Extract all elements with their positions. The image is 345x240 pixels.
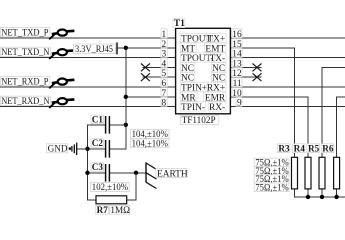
- wire pin7 center-tap MR: [126, 96, 176, 98]
- wire R5 bottom stub: [321, 189, 323, 197]
- wire R7 right vertical: [127, 173, 136, 200]
- junction dot 3.3V_RJ45 tap: [124, 46, 128, 50]
- twisted-pair squiggle TXD_P: [49, 29, 74, 39]
- wire pin10 to R4: [230, 97, 308, 158]
- wire R4 bottom stub: [307, 189, 309, 197]
- svg-text:C2: C2: [92, 138, 104, 148]
- wire pin3 net NET_TXD_N: [0, 57, 176, 59]
- pin name TX+ (pin16): [207, 33, 226, 42]
- twisted-pair squiggle RXD_N: [49, 98, 74, 108]
- pin number 7: [161, 88, 167, 97]
- svg-text:9: 9: [237, 99, 242, 109]
- resistor R4: [305, 157, 311, 189]
- svg-text:NET_TXD_N: NET_TXD_N: [1, 47, 49, 58]
- svg-text:C3: C3: [92, 162, 104, 172]
- value R7 1MΩ: [109, 205, 129, 214]
- svg-text:GND: GND: [48, 144, 68, 154]
- pin name MT (pin2): [180, 43, 196, 52]
- svg-text:75Ω,±1%: 75Ω,±1%: [255, 182, 289, 192]
- pin number 3: [161, 48, 167, 57]
- net label NET_RXD_P: [0, 77, 49, 86]
- no-connect X pin13: [253, 64, 262, 72]
- pin name TPIN- (pin8): [180, 102, 206, 111]
- net label NET_TXD_P: [0, 28, 49, 37]
- svg-text:EARTH: EARTH: [157, 169, 188, 179]
- resistor R6: [334, 157, 340, 189]
- wire R6 bottom stub: [336, 189, 338, 197]
- junction dot C1 right: [124, 123, 128, 127]
- pin name EMT (pin15): [204, 43, 226, 52]
- svg-text:NET_RXD_N: NET_RXD_N: [1, 96, 49, 107]
- pin name EMR (pin10): [203, 92, 226, 101]
- svg-text:RX-: RX-: [209, 103, 225, 113]
- wire C1 right: [110, 124, 126, 126]
- svg-text:NET_RXD_P: NET_RXD_P: [1, 77, 48, 88]
- pin number 9: [236, 97, 242, 106]
- svg-text:102,±10%: 102,±10%: [92, 182, 129, 192]
- svg-text:R4: R4: [294, 143, 306, 153]
- pin name MR (pin7): [180, 92, 197, 101]
- designator C1: [91, 115, 104, 124]
- wire pin4 NC stub: [142, 66, 175, 68]
- junction dot pin7 tap: [124, 95, 128, 99]
- pin number 16: [232, 29, 242, 38]
- pin number 4: [161, 58, 167, 67]
- pin number 1: [161, 29, 167, 38]
- wire pin2 center-tap 3.3V_RJ45: [117, 47, 175, 49]
- capacitor C3: [106, 164, 110, 182]
- resistor R5: [319, 157, 325, 189]
- ground GND: [46, 144, 67, 153]
- svg-text:TF1102P: TF1102P: [182, 116, 216, 126]
- net label NET_RXD_N: [0, 96, 50, 105]
- part value TF1102P: [180, 115, 219, 124]
- svg-text:R7: R7: [97, 205, 109, 215]
- svg-text:104,±10%: 104,±10%: [132, 139, 169, 149]
- wire C2 left: [88, 148, 105, 150]
- pin name NC (pin4): [180, 63, 195, 72]
- svg-text:C1: C1: [92, 115, 104, 125]
- resistor R7: [96, 196, 127, 204]
- value C2 104,±10%: [130, 139, 169, 148]
- value R6 75Ω,±1%: [254, 183, 289, 191]
- pin name NC (pin13): [211, 63, 226, 72]
- port bar 3.3V_RJ45: [116, 42, 118, 54]
- svg-text:R5: R5: [308, 143, 320, 153]
- junction dot GND/C2: [85, 147, 89, 151]
- designator C3: [91, 163, 104, 172]
- ground symbol bars: [69, 143, 77, 155]
- svg-text:R3: R3: [278, 143, 290, 153]
- wire left vertical C1-C2-C3-R7: [88, 125, 105, 200]
- junction dot R4 bottom: [306, 195, 310, 199]
- pin number 14: [232, 48, 242, 57]
- value R5 75Ω,±1%: [254, 175, 289, 183]
- pin name TX- (pin14): [209, 53, 226, 62]
- designator R3: [277, 144, 289, 153]
- designator R6: [321, 144, 333, 153]
- value R3 75Ω,±1%: [254, 158, 289, 166]
- pin number 13: [232, 58, 242, 67]
- pin name TPIN+ (pin6): [180, 82, 208, 91]
- earth symbol: [146, 162, 156, 188]
- value C3 102,±10%: [91, 182, 130, 191]
- net label EARTH: [156, 169, 187, 178]
- wire pin16 to right edge: [230, 37, 345, 39]
- pin number 15: [232, 39, 242, 48]
- junction dot R6 bottom: [334, 195, 338, 199]
- pin name NC (pin5): [180, 73, 195, 82]
- wire pin6 net NET_RXD_P: [0, 86, 176, 88]
- svg-text:R6: R6: [322, 143, 334, 153]
- designator R5: [307, 144, 319, 153]
- wire R6 feed from right edge: [337, 97, 345, 158]
- capacitor C2: [106, 140, 110, 158]
- pin name RX- (pin9): [208, 102, 226, 111]
- pin number 12: [232, 68, 242, 77]
- wire pin5 NC stub: [142, 76, 175, 78]
- value R4 75Ω,±1%: [254, 167, 289, 175]
- designator T1: [173, 19, 185, 28]
- junction dot C3/R7: [134, 171, 138, 175]
- junction dot C3 left: [85, 171, 89, 175]
- wire R5 feed from right edge: [322, 67, 345, 157]
- pin number 2: [161, 39, 167, 48]
- svg-text:8: 8: [162, 99, 167, 109]
- wire pin9 to right edge: [230, 106, 345, 108]
- wire pin1 net NET_TXD_P: [0, 37, 176, 39]
- twisted-pair squiggle RXD_P: [49, 79, 74, 89]
- wire center-tap vertical to capacitors: [110, 48, 126, 149]
- pin name NC (pin12): [211, 73, 226, 82]
- designator R4: [293, 144, 305, 153]
- power port 3.3V_RJ45: [73, 44, 115, 54]
- pin number 8: [161, 97, 167, 106]
- wire C3 right to EARTH: [110, 172, 146, 174]
- capacitor C1: [106, 116, 110, 134]
- designator R7: [96, 205, 109, 214]
- value C1 104,±10%: [130, 130, 169, 139]
- svg-text:3.3V_RJ45: 3.3V_RJ45: [75, 44, 113, 54]
- pin name RX+ (pin11): [206, 82, 226, 91]
- svg-text:TPIN-: TPIN-: [181, 103, 205, 113]
- svg-text:1MΩ: 1MΩ: [110, 205, 130, 215]
- wire resistor bottom bus: [295, 189, 345, 197]
- resistor R3: [292, 157, 298, 189]
- wire pin14 to right edge: [230, 57, 345, 59]
- no-connect X pin4: [141, 64, 150, 72]
- no-connect X pin12: [253, 73, 262, 81]
- wire pin13 NC stub: [230, 66, 261, 68]
- wire C3 left: [88, 172, 105, 174]
- wire pin15 to R3: [230, 48, 294, 158]
- svg-text:NET_TXD_P: NET_TXD_P: [1, 28, 48, 39]
- twisted-pair squiggle TXD_N: [49, 49, 74, 59]
- designator C2: [91, 139, 104, 148]
- junction dot R5 bottom: [320, 195, 324, 199]
- pin number 10: [232, 88, 242, 97]
- pin number 6: [161, 78, 167, 87]
- wire GND to vertical: [77, 148, 88, 150]
- pin name TPOUT (pin1): [180, 33, 212, 42]
- pin number 5: [161, 68, 167, 77]
- wire pin8 net NET_RXD_N: [0, 106, 176, 108]
- no-connect X pin5: [141, 73, 150, 81]
- pin number 11: [232, 78, 242, 87]
- svg-text:T1: T1: [174, 19, 185, 29]
- wire pin12 NC stub: [230, 76, 261, 78]
- wire pin11 to right edge: [230, 86, 345, 88]
- pin name TPOUT- (pin3): [180, 53, 214, 62]
- net label NET_TXD_N: [0, 47, 50, 56]
- transformer U box T1: [176, 28, 231, 114]
